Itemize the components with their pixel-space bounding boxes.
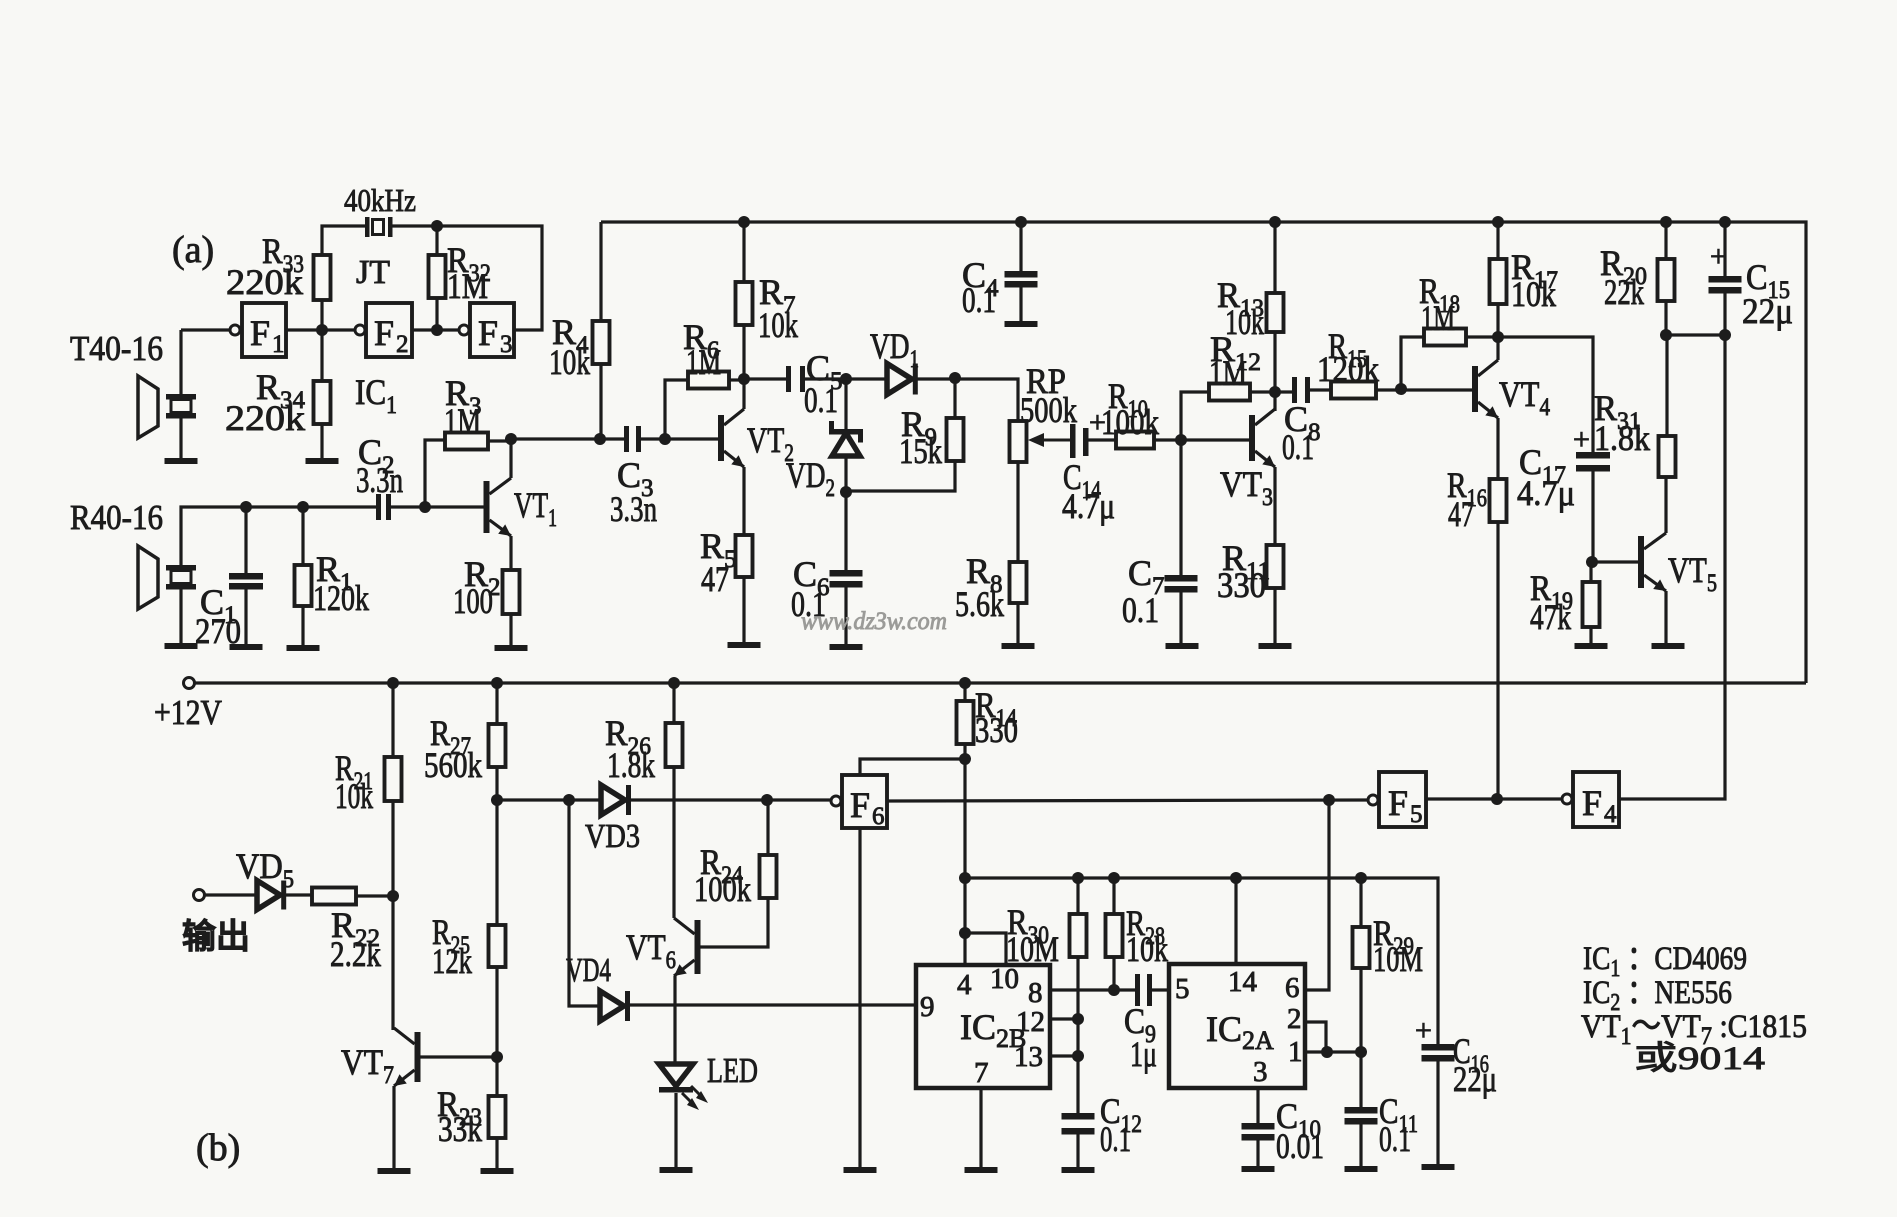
svg-text:6: 6 (872, 803, 885, 830)
wire F2-F3 wire (412, 328, 458, 331)
ground C16 (1422, 1164, 1455, 1170)
resistor R20 (1658, 259, 1675, 301)
label IC1 designator (355, 372, 397, 419)
zener diode VD2 (829, 421, 863, 456)
wire VT7 emitter lead (392, 1086, 395, 1168)
ground F6 (844, 1167, 877, 1173)
wire VD1 to RP node (916, 379, 1018, 421)
wire R5 bottom lead (742, 577, 745, 642)
label R6 designator (683, 317, 720, 364)
label R20 value (1604, 272, 1644, 312)
inverter F4 input bubble (1562, 794, 1572, 804)
wire IC2B pin10 leg (965, 933, 1006, 965)
label C2 designator (358, 432, 395, 479)
svg-text:120k: 120k (313, 578, 369, 618)
label R23 designator (437, 1084, 482, 1131)
svg-text:1M: 1M (1421, 298, 1455, 338)
label R19 value (1530, 597, 1571, 637)
label C6 designator (793, 554, 830, 601)
label R29 designator (1373, 913, 1414, 960)
wire IC2B pin8 wire (1050, 988, 1136, 991)
label R12 designator (1210, 329, 1261, 376)
junction IC2B pin4 node (959, 927, 971, 939)
ground R8 (1002, 643, 1035, 649)
resistor R34 (314, 381, 331, 424)
label R15 value (1317, 349, 1379, 389)
svg-text:JT: JT (356, 254, 390, 291)
label R31 value (1594, 418, 1650, 458)
label R31 designator (1594, 388, 1641, 435)
resistor R30 (1070, 914, 1087, 957)
label C5 designator (806, 348, 843, 395)
diode VD4 (600, 991, 630, 1021)
wire R28 bottom lead (1112, 957, 1115, 990)
svg-text:输出: 输出 (182, 918, 250, 956)
wire R19 bottom lead (1589, 627, 1592, 643)
wire C7 top lead (1179, 440, 1182, 575)
wire C1 top lead (244, 507, 247, 573)
capacitor C8 (1292, 377, 1310, 403)
wire VT2 emitter lead (742, 467, 745, 535)
svg-text:VT7: VT7 (341, 1042, 394, 1089)
wire R7 top lead (742, 222, 745, 282)
transistor VT4 (1472, 360, 1498, 418)
svg-text:10M: 10M (1373, 939, 1423, 979)
label R32 value (447, 266, 488, 306)
IC IC2B box (916, 965, 1050, 1088)
wire R40-16 to signal wire (181, 507, 377, 565)
junction F2 out node (431, 324, 443, 336)
wire R13 bottom lead (1273, 332, 1276, 411)
svg-text:13: 13 (1014, 1041, 1043, 1073)
svg-text:5: 5 (1175, 973, 1190, 1005)
label R18 designator (1419, 271, 1460, 318)
label R16 value (1448, 494, 1474, 534)
svg-text:2.2k: 2.2k (330, 934, 381, 974)
svg-text:或9014: 或9014 (1634, 1040, 1765, 1077)
wire IC2B pin12 lead (1050, 1017, 1078, 1020)
wire R7 bottom lead (742, 325, 745, 379)
resistor R22 (312, 888, 356, 905)
inverter F4 (1573, 772, 1619, 828)
ground C6 (830, 644, 863, 650)
ground C10 (1242, 1166, 1275, 1172)
capacitor C17 (1576, 452, 1610, 472)
label R32 designator (447, 240, 491, 287)
label VT2 (747, 420, 794, 467)
svg-text:5: 5 (1410, 801, 1423, 828)
capacitor C15 (1709, 276, 1742, 294)
svg-text:T40-16: T40-16 (70, 329, 163, 368)
svg-text:47: 47 (701, 559, 729, 599)
label C3 value (610, 489, 657, 529)
svg-text:10k: 10k (549, 342, 590, 382)
resistor R27 (489, 724, 506, 767)
inverter F5 input bubble (1368, 795, 1378, 805)
resistor R25 (489, 925, 506, 967)
svg-text:1M: 1M (1209, 353, 1247, 393)
wire +12V rail (195, 681, 1806, 684)
wire C15 bottom to F4 output (1619, 293, 1725, 799)
wire R14 top lead (963, 683, 966, 701)
ground C11 (1345, 1166, 1378, 1172)
wire C9 to IC2A pin5 (1152, 988, 1169, 991)
svg-text:VT5: VT5 (1668, 550, 1717, 597)
wire R6 right lead (729, 378, 744, 381)
label R21 designator (335, 748, 373, 795)
ground R19 (1575, 643, 1608, 649)
resistor R7 (736, 282, 753, 325)
wire VT1 emitter lead (509, 536, 512, 570)
svg-text:33k: 33k (438, 1109, 482, 1149)
label R12 value (1209, 353, 1247, 393)
wire R23 top lead (495, 1057, 498, 1096)
label C1 designator (200, 582, 237, 629)
resistor R3 (445, 433, 488, 450)
svg-text:1: 1 (272, 331, 285, 358)
ground C1 (230, 644, 263, 650)
label R2 value (453, 581, 493, 621)
ground R5 (728, 642, 761, 648)
svg-text:330: 330 (1217, 565, 1266, 605)
wire R30 top lead (1076, 878, 1079, 914)
transistor VT2 (718, 409, 744, 467)
junction IC2B pin12 node (1072, 1013, 1084, 1025)
ground C4 (1005, 321, 1038, 327)
junction VT1 collector node (505, 433, 517, 445)
junction VT7 collector node (387, 890, 399, 902)
label R6 value (686, 342, 721, 382)
wire R11 bottom lead (1273, 588, 1276, 643)
label R1 value (313, 578, 369, 618)
resistor R8 (1010, 562, 1027, 603)
junction R30 top node (1072, 872, 1084, 884)
label R24 designator (700, 842, 743, 889)
label C14 designator (1063, 457, 1101, 504)
transducer R40-16 piezo (166, 565, 196, 590)
junction timer supply node (959, 872, 971, 884)
wire top +V rail (601, 222, 1806, 683)
junction R18 bottom node (1395, 383, 1407, 395)
wire VT4 emitter lead (1496, 418, 1499, 479)
label R11 value (1217, 565, 1266, 605)
inverter F6 input bubble (831, 796, 841, 806)
svg-text:0.1: 0.1 (1122, 590, 1159, 630)
transducer R40-16 horn (138, 546, 158, 609)
svg-text:22k: 22k (1604, 272, 1644, 312)
wire VT4 collector to C17 (1498, 337, 1593, 452)
svg-text:(a): (a) (172, 229, 214, 271)
svg-text:F: F (250, 313, 270, 353)
resistor R6 (688, 372, 729, 389)
transistor VT3 (1249, 409, 1275, 467)
resistor R18 (1424, 329, 1466, 346)
svg-text:F: F (478, 313, 498, 353)
IC IC2A box (1169, 964, 1305, 1088)
label C9 designator (1124, 1001, 1156, 1048)
resistor R11 (1267, 545, 1284, 588)
junction VD2 anode node (840, 486, 852, 498)
junction R29 top node (1355, 872, 1367, 884)
junction rail-C4 (1015, 216, 1027, 228)
wire R31 top lead (1665, 335, 1668, 436)
wire R27 bottom lead (495, 767, 498, 800)
wire R18 left leg (1401, 337, 1424, 389)
LED diode (659, 1064, 708, 1110)
label R4 value (549, 342, 590, 382)
svg-text:4: 4 (1604, 801, 1617, 828)
svg-text:VD2: VD2 (786, 455, 835, 502)
wire R2 bottom lead (509, 614, 512, 645)
junction VT4 collector node (1492, 331, 1504, 343)
label R16 designator (1447, 465, 1487, 512)
label R34 value (225, 398, 305, 438)
wire IC2A pin3 lead (1256, 1088, 1259, 1123)
svg-text:4: 4 (957, 969, 972, 1001)
wire F6 output wire (887, 800, 1367, 801)
svg-text:100k: 100k (694, 869, 751, 909)
label VT5 (1668, 550, 1717, 597)
svg-text:6: 6 (1285, 972, 1300, 1004)
resistor R32 (429, 255, 446, 298)
svg-text:F: F (374, 313, 394, 353)
wire VT6 emitter lead (673, 976, 676, 1063)
wire C15 top lead (1723, 222, 1726, 276)
label C15 value (1742, 291, 1793, 331)
label VD1 (870, 326, 919, 373)
svg-text:10: 10 (990, 963, 1019, 995)
label RP value (1020, 390, 1077, 430)
label R15 designator (1328, 326, 1367, 373)
ground R2 (495, 645, 528, 651)
junction F1 out node (316, 324, 328, 336)
transistor VT1 (484, 478, 512, 536)
ground C7 (1166, 643, 1199, 649)
label VT1 (514, 485, 557, 532)
capacitor C6 (830, 570, 863, 588)
label VT3 (1220, 464, 1273, 511)
wire C14-R10 lead (1088, 438, 1116, 441)
junction rail-C15 (1719, 216, 1731, 228)
svg-text:10k: 10k (1511, 274, 1556, 314)
inverter F2 input bubble (355, 325, 365, 335)
wire R17 top lead (1496, 222, 1499, 259)
wire R10-VT3 base (1154, 438, 1249, 441)
junction IC2A pin6 branch node (1323, 794, 1335, 806)
crystal JT 40kHz (365, 217, 393, 237)
transistor VT6 (674, 918, 701, 976)
resistor R26 (666, 723, 683, 767)
wire VT3 emitter lead (1273, 467, 1276, 545)
label C16 designator (1453, 1031, 1489, 1078)
wire R29 top lead (1359, 878, 1362, 927)
ground VT7 (378, 1168, 411, 1174)
svg-text:15k: 15k (899, 431, 942, 471)
wire C17 bottom lead (1591, 471, 1594, 562)
resistor R2 (503, 570, 520, 614)
resistor R28 (1106, 914, 1123, 957)
wire R21 bottom lead (391, 801, 394, 896)
svg-text:0.1: 0.1 (1379, 1119, 1411, 1159)
wire C2 to VT1 base (391, 505, 484, 508)
label R10 value (1101, 402, 1159, 442)
wire C11 top lead (1359, 1052, 1362, 1107)
svg-text:2: 2 (1287, 1003, 1302, 1035)
wire VT1 collector lead (509, 439, 512, 478)
svg-text:5.6k: 5.6k (955, 584, 1004, 624)
ground C12 (1062, 1167, 1095, 1173)
svg-text:10k: 10k (335, 776, 373, 816)
wire R21 top lead (391, 683, 394, 757)
svg-text:1M: 1M (686, 342, 721, 382)
resistor R33 (314, 255, 331, 300)
capacitor C11 (1345, 1107, 1378, 1125)
wire R30 bottom leg (1076, 957, 1079, 1113)
wire C4 bottom lead (1019, 287, 1022, 321)
svg-text:1.8k: 1.8k (1594, 418, 1650, 458)
inverter F3 input bubble (459, 325, 469, 335)
wire VD3 wire (497, 798, 601, 801)
ground R1 (287, 645, 320, 651)
label R30 value (1006, 929, 1059, 969)
wire T40-16 top lead (179, 330, 182, 394)
wire C3-VT2 base (641, 437, 718, 440)
label C10 designator (1276, 1096, 1321, 1143)
label R3 designator (445, 373, 482, 420)
label R5 value (701, 559, 729, 599)
resistor R31 (1659, 436, 1676, 477)
svg-text:VT6: VT6 (626, 927, 676, 974)
label C7 value (1122, 590, 1159, 630)
junction R29 bottom node (1355, 1046, 1367, 1058)
inverter F6 (842, 775, 887, 830)
wire R4 top lead (599, 222, 602, 321)
ground R11 (1259, 643, 1292, 649)
label VD2 (786, 455, 835, 502)
svg-text:4.7μ: 4.7μ (1062, 486, 1115, 526)
junction C1 node (240, 501, 252, 513)
diode VD5 (257, 881, 286, 910)
resistor R24 (760, 855, 777, 898)
resistor R9 (947, 418, 964, 461)
wire R15-VT4 base (1376, 388, 1472, 391)
wire C16 bottom lead (1436, 1061, 1439, 1164)
svg-text:3: 3 (500, 331, 513, 358)
label C1 value (195, 611, 241, 651)
wire VT7 base wire (420, 1055, 497, 1058)
label R27 value (424, 745, 482, 785)
junction IC2B pin13 node (1072, 1050, 1084, 1062)
potentiometer RP wiper arrow (1028, 433, 1070, 447)
svg-text:4.7μ: 4.7μ (1517, 473, 1575, 513)
label R22 designator (331, 905, 380, 952)
wire VD4 left leg (569, 800, 600, 1006)
label VD4 (566, 952, 611, 989)
wire R18 right lead (1466, 335, 1498, 338)
junction F5 out node (1491, 793, 1503, 805)
label R28 value (1126, 929, 1168, 969)
wire VT2 collector lead (742, 379, 745, 409)
wire R25 bottom lead (495, 967, 498, 1057)
junction VD3 anode node (491, 794, 503, 806)
capacitor C4 (1005, 271, 1038, 288)
svg-text:12: 12 (1016, 1006, 1045, 1038)
label C17 designator (1519, 442, 1566, 489)
junction rail-R14 (959, 677, 971, 689)
wire R34 top lead (320, 330, 323, 381)
resistor R17 (1490, 259, 1507, 304)
junction VT3 collector node (1269, 386, 1281, 398)
wire crystal left lead (322, 226, 366, 255)
label C9 value (1130, 1034, 1157, 1074)
wire C1 bottom lead (244, 589, 247, 644)
label VT7 (341, 1042, 394, 1089)
junction VT2 collector node (738, 373, 750, 385)
wire C6 bottom lead (844, 587, 847, 644)
wire C7 bottom lead (1179, 592, 1182, 643)
svg-text:VT1: VT1 (514, 485, 557, 532)
wire R1 bottom lead (301, 606, 304, 645)
wire R32 leads (435, 226, 438, 255)
label R25 value (432, 941, 472, 981)
capacitor C12 (1062, 1113, 1095, 1135)
wire R20-C15 node wire (1666, 333, 1725, 336)
ground LED (660, 1167, 693, 1173)
svg-text:IC2A: IC2A (1206, 1009, 1274, 1055)
svg-text:+12V: +12V (154, 693, 222, 732)
wire R24 top lead (766, 800, 769, 855)
wire R34 bottom lead (320, 424, 323, 458)
svg-text:22μ: 22μ (1742, 291, 1793, 331)
capacitor C3 (624, 426, 641, 452)
label R17 value (1511, 274, 1556, 314)
junction rail-R7 (738, 216, 750, 228)
wire VT6 base leg (700, 898, 768, 947)
resistor R16 (1490, 479, 1507, 522)
label R4 designator (552, 312, 589, 359)
svg-text:www.dz3w.com: www.dz3w.com (801, 608, 947, 635)
wire F5-F4 wire (1426, 797, 1561, 800)
resistor R21 (385, 757, 402, 801)
capacitor C16 (1422, 1044, 1455, 1062)
capacitor C9 (1135, 974, 1152, 1006)
wire C8 left lead (1275, 390, 1292, 393)
wire C5 right lead (805, 377, 887, 380)
note IC1 (1583, 941, 1747, 982)
wire VD4 to IC2B pin9 (629, 1003, 916, 1006)
wire R20 bottom lead (1664, 301, 1667, 335)
svg-text:10k: 10k (1126, 929, 1168, 969)
label C4 value (962, 280, 996, 320)
svg-text:3: 3 (1253, 1056, 1268, 1088)
junction R4 bottom node (594, 433, 606, 445)
label R29 value (1373, 939, 1423, 979)
label R2 designator (464, 554, 501, 601)
wire R25 top lead (495, 800, 498, 925)
wire R9 bottom leg (846, 461, 955, 491)
wire VD3 cathode to F6 (630, 798, 830, 801)
wire R12 left leg (1181, 392, 1209, 440)
junction VD4 branch node (563, 794, 575, 806)
svg-text:0.1: 0.1 (962, 280, 996, 320)
note VT (1581, 1009, 1807, 1050)
wire IC2A pin14 leg (1234, 878, 1237, 964)
diode VD1 (887, 364, 918, 395)
svg-text:22μ: 22μ (1453, 1059, 1497, 1099)
svg-text:(b): (b) (196, 1127, 240, 1169)
svg-text:0.1: 0.1 (804, 380, 838, 420)
junction rail-R21 (387, 677, 399, 689)
